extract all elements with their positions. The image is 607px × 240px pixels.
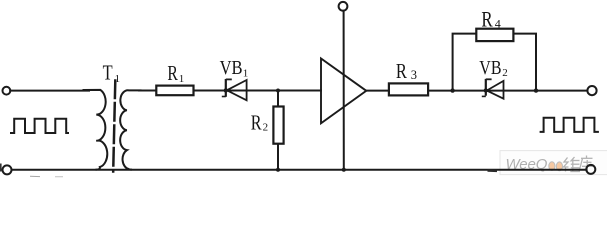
svg-text:3: 3	[411, 68, 417, 82]
svg-text:4: 4	[495, 17, 501, 31]
svg-text:R: R	[481, 7, 493, 32]
svg-text:VB: VB	[479, 58, 501, 79]
svg-text:T: T	[103, 61, 113, 85]
svg-text:R: R	[251, 111, 262, 135]
svg-text:1: 1	[115, 73, 121, 85]
svg-text:R: R	[396, 59, 408, 83]
svg-text:VB: VB	[220, 58, 243, 79]
svg-text:2: 2	[502, 67, 508, 79]
svg-text:2: 2	[263, 121, 269, 133]
svg-text:R: R	[167, 61, 178, 85]
svg-text:1: 1	[243, 67, 249, 79]
svg-text:1: 1	[179, 73, 185, 85]
